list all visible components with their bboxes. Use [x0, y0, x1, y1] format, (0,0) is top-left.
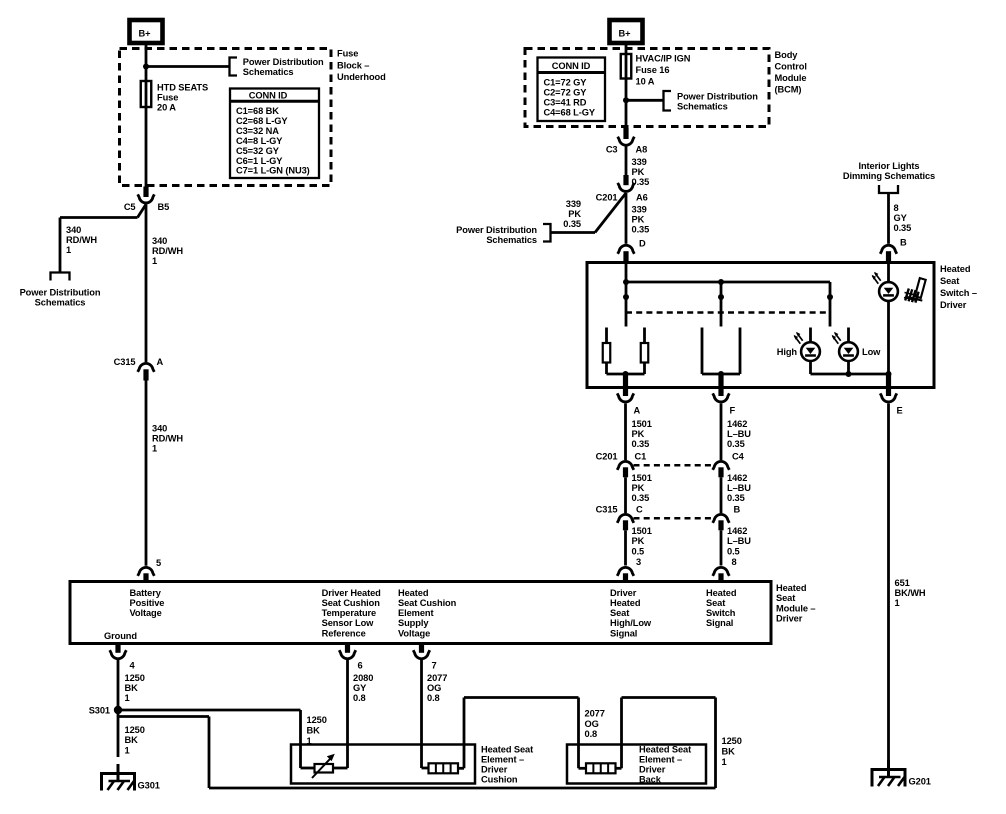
- svg-text:Underhood: Underhood: [337, 72, 386, 82]
- heating element (back): [586, 763, 616, 773]
- svg-text:B+: B+: [619, 29, 632, 39]
- wire E output stub: [886, 374, 891, 396]
- wire B+ to fuse block: [145, 43, 148, 49]
- module pin 8: [713, 567, 730, 576]
- svg-text:PK: PK: [568, 209, 581, 219]
- wire 651 BK/WH: [887, 404, 890, 770]
- svg-text:340: 340: [152, 423, 167, 433]
- svg-text:Fuse: Fuse: [337, 49, 358, 59]
- wire element return (back): [616, 767, 622, 770]
- connector C201 pin C1: [617, 461, 634, 470]
- heated seat switch - driver (box): [587, 263, 934, 388]
- module pin 6: [345, 644, 350, 653]
- svg-text:0.35: 0.35: [727, 493, 745, 503]
- svg-text:BK: BK: [125, 735, 139, 745]
- svg-text:339: 339: [632, 157, 647, 167]
- svg-text:A: A: [634, 405, 641, 415]
- CONN ID table (BCM): [538, 58, 606, 122]
- junction node: [718, 294, 724, 300]
- junction node: [623, 371, 629, 377]
- svg-text:C6=1 L-GY: C6=1 L-GY: [236, 156, 283, 166]
- svg-text:G301: G301: [138, 780, 160, 790]
- junction node: [718, 371, 724, 377]
- svg-text:1250: 1250: [722, 736, 742, 746]
- svg-text:C2=72 GY: C2=72 GY: [544, 88, 588, 98]
- svg-text:C3: C3: [606, 144, 618, 154]
- svg-text:PK: PK: [632, 536, 645, 546]
- svg-text:Body: Body: [775, 50, 799, 60]
- resistor (high range): [603, 343, 611, 363]
- junction node: [143, 64, 149, 70]
- wire: [809, 361, 812, 374]
- svg-text:BK: BK: [125, 683, 139, 693]
- svg-text:5: 5: [156, 558, 161, 568]
- svg-text:0.8: 0.8: [585, 729, 598, 739]
- svg-text:PK: PK: [632, 483, 645, 493]
- svg-text:Voltage: Voltage: [398, 628, 430, 638]
- svg-text:B+: B+: [139, 29, 152, 39]
- svg-text:Fuse 16: Fuse 16: [636, 65, 670, 75]
- wire indicator return: [811, 373, 889, 376]
- svg-text:Schematics: Schematics: [35, 297, 86, 307]
- resistor (low range): [641, 343, 649, 363]
- wire pin 7 to element: [422, 767, 429, 770]
- temperature sensor (variable resistor): [312, 754, 335, 778]
- heated seat element - driver back (box): [567, 745, 706, 784]
- wire B+ into BCM: [625, 43, 628, 49]
- wire internal bus: [626, 281, 830, 284]
- switch connector pin B: [880, 245, 897, 254]
- switch connector pin A: [617, 393, 634, 402]
- svg-text:Seat: Seat: [706, 598, 725, 608]
- svg-text:HVAC/IP IGN: HVAC/IP IGN: [636, 54, 691, 64]
- wire 2080 GY: [346, 660, 349, 768]
- connector C315 pin B: [713, 514, 730, 523]
- wire feed into back element: [577, 698, 580, 769]
- svg-text:0.35: 0.35: [727, 439, 745, 449]
- svg-text:1462: 1462: [727, 526, 747, 536]
- fuse block - underhood (dashed box): [120, 49, 332, 186]
- wire join F: [702, 373, 740, 376]
- svg-text:Interior Lights: Interior Lights: [859, 161, 920, 171]
- svg-text:C4=68 L-GY: C4=68 L-GY: [544, 108, 596, 118]
- svg-text:1: 1: [125, 693, 130, 703]
- wire 1250 BK from pin 4: [117, 660, 120, 710]
- svg-text:1: 1: [722, 757, 727, 767]
- fuse F1 HTD SEATS 20A: [141, 81, 152, 107]
- svg-text:Power Distribution: Power Distribution: [456, 225, 537, 235]
- svg-text:Element –: Element –: [481, 754, 524, 764]
- CONN ID table (fuse block): [230, 89, 319, 179]
- wire F output stub: [718, 374, 723, 396]
- svg-text:Element: Element: [398, 608, 433, 618]
- indicator LED Low: [832, 332, 858, 361]
- svg-text:Control: Control: [775, 62, 807, 72]
- svg-text:C: C: [636, 505, 643, 515]
- svg-text:B: B: [900, 237, 907, 247]
- battery feed B+ (BCM): [610, 20, 643, 43]
- svg-text:B: B: [734, 505, 741, 515]
- svg-text:0.35: 0.35: [894, 223, 912, 233]
- svg-text:1: 1: [125, 745, 130, 755]
- wire join A: [607, 373, 645, 376]
- svg-text:C5=32 GY: C5=32 GY: [236, 146, 280, 156]
- switch gang link (dashed): [626, 311, 829, 314]
- switch contact left F: [701, 328, 704, 375]
- off-page reference Power Distribution Schematics (BCM): [664, 91, 672, 111]
- svg-text:Driver: Driver: [776, 614, 803, 624]
- svg-text:1250: 1250: [307, 715, 327, 725]
- connector C201 pin C4: [713, 461, 730, 470]
- wire splice to element (branch 1): [118, 709, 301, 712]
- off-page reference Power Distribution Schematics (fuse block): [230, 58, 238, 76]
- junction node: [827, 294, 833, 300]
- seat heater icon: [904, 278, 926, 303]
- wire to High indicator: [809, 328, 812, 343]
- svg-text:Module: Module: [775, 73, 807, 83]
- wire element return (cushion): [458, 767, 464, 770]
- svg-text:CONN ID: CONN ID: [552, 61, 591, 71]
- svg-text:0.5: 0.5: [727, 546, 740, 556]
- connector C201 body (dashed): [634, 464, 714, 467]
- svg-text:Driver: Driver: [639, 764, 666, 774]
- junction node: [718, 279, 724, 285]
- wire A output stub: [623, 374, 628, 396]
- svg-text:0.8: 0.8: [353, 693, 366, 703]
- heating element (cushion): [429, 763, 459, 773]
- ground G301: [102, 764, 135, 791]
- wire branch diagonal to power distribution: [595, 193, 626, 233]
- svg-text:HTD SEATS: HTD SEATS: [157, 82, 208, 92]
- svg-text:1: 1: [66, 245, 71, 255]
- svg-text:Seat: Seat: [776, 593, 795, 603]
- svg-text:BK: BK: [722, 746, 736, 756]
- switch connector pin D: [618, 245, 635, 254]
- svg-text:0.35: 0.35: [632, 493, 650, 503]
- svg-text:C315: C315: [114, 357, 136, 367]
- illumination LED (switch): [872, 272, 898, 301]
- junction node: [623, 294, 629, 300]
- junction node: [846, 371, 852, 377]
- wire 1501 PK middle: [624, 477, 627, 513]
- svg-text:RD/WH: RD/WH: [152, 433, 183, 443]
- svg-text:BK: BK: [307, 725, 321, 735]
- svg-text:0.35: 0.35: [563, 219, 581, 229]
- fuse HVAC/IP IGN Fuse 16 10A: [621, 54, 632, 79]
- svg-text:Switch –: Switch –: [940, 288, 977, 298]
- svg-text:2077: 2077: [427, 673, 447, 683]
- heated seat element - driver cushion (box): [291, 745, 475, 784]
- svg-text:High: High: [777, 347, 798, 357]
- svg-text:Back: Back: [639, 774, 662, 784]
- indicator LED High: [794, 332, 820, 361]
- svg-text:PK: PK: [632, 167, 645, 177]
- svg-text:0.5: 0.5: [632, 546, 645, 556]
- svg-text:1: 1: [895, 598, 900, 608]
- connector C3 pin A8: [623, 128, 628, 139]
- svg-text:Switch: Switch: [706, 608, 736, 618]
- svg-text:PK: PK: [632, 429, 645, 439]
- wire: [847, 361, 850, 374]
- wire 1462 L-BU middle: [720, 477, 723, 513]
- svg-text:Seat Cushion: Seat Cushion: [398, 598, 457, 608]
- wire: [605, 363, 608, 375]
- wire 2077 OG: [420, 660, 423, 768]
- switch connector pin E: [880, 393, 897, 402]
- svg-text:0.8: 0.8: [427, 693, 440, 703]
- svg-text:S301: S301: [89, 706, 110, 716]
- module pin 3: [617, 567, 634, 576]
- wire illumination return: [887, 301, 890, 374]
- svg-text:Dimming Schematics: Dimming Schematics: [843, 171, 935, 181]
- wire to power distribution reference (BCM): [626, 99, 664, 102]
- wire illumination feed internal: [887, 263, 890, 283]
- svg-text:Positive: Positive: [130, 598, 165, 608]
- svg-text:2080: 2080: [353, 673, 373, 683]
- svg-text:A8: A8: [636, 144, 648, 154]
- svg-text:Module –: Module –: [776, 603, 816, 613]
- svg-text:L–BU: L–BU: [727, 536, 751, 546]
- svg-text:OG: OG: [427, 683, 441, 693]
- svg-text:Power Distribution: Power Distribution: [243, 57, 324, 67]
- module pin 7: [419, 644, 424, 653]
- svg-text:G201: G201: [909, 776, 931, 786]
- svg-text:Fuse: Fuse: [157, 92, 178, 102]
- svg-text:Battery: Battery: [130, 588, 162, 598]
- module pin 4: [115, 644, 120, 653]
- svg-text:Supply: Supply: [398, 618, 429, 628]
- svg-text:1250: 1250: [125, 725, 145, 735]
- svg-text:0.35: 0.35: [632, 225, 650, 235]
- svg-text:C1=68 BK: C1=68 BK: [236, 106, 279, 116]
- svg-text:L–BU: L–BU: [727, 429, 751, 439]
- battery feed B+ (left): [130, 20, 163, 43]
- svg-text:1501: 1501: [632, 526, 652, 536]
- wire 1501 PK lower: [624, 530, 627, 565]
- svg-text:Seat: Seat: [940, 276, 959, 286]
- svg-text:1: 1: [152, 444, 157, 454]
- off-page reference Power Distribution Schematics (left): [51, 273, 70, 281]
- off-page reference Interior Lights (bracket): [879, 185, 898, 193]
- wire 340 RD/WH to module: [145, 381, 148, 566]
- svg-text:OG: OG: [585, 719, 599, 729]
- svg-text:Heated: Heated: [398, 588, 429, 598]
- svg-text:A: A: [157, 357, 164, 367]
- connector C5 pin B5: [143, 187, 148, 198]
- svg-text:F: F: [730, 405, 736, 415]
- svg-text:Power Distribution: Power Distribution: [677, 92, 758, 102]
- wire to temperature sensor: [301, 767, 315, 770]
- wire 1462 L-BU lower: [720, 530, 723, 565]
- off-page reference Power Distribution Schematics (middle): [543, 224, 551, 242]
- svg-text:Seat: Seat: [610, 608, 629, 618]
- svg-text:D: D: [639, 239, 646, 249]
- svg-text:C201: C201: [596, 452, 618, 462]
- svg-text:651: 651: [895, 578, 910, 588]
- svg-text:Heated Seat: Heated Seat: [481, 744, 533, 754]
- svg-text:Block –: Block –: [337, 60, 369, 70]
- svg-text:3: 3: [636, 557, 641, 567]
- wire through BCM: [625, 49, 628, 128]
- svg-text:2077: 2077: [585, 708, 605, 718]
- junction node: [623, 97, 629, 103]
- svg-text:C3=41 RD: C3=41 RD: [544, 98, 587, 108]
- wire switch pole middle: [720, 282, 723, 327]
- svg-text:0.35: 0.35: [632, 439, 650, 449]
- connector C315 pin A (left): [138, 363, 155, 372]
- svg-text:Ground: Ground: [104, 631, 137, 641]
- junction node: [886, 371, 892, 377]
- wire to Low indicator: [847, 328, 850, 343]
- wire 339 PK to switch: [625, 193, 628, 244]
- ground G201: [872, 760, 905, 787]
- svg-text:8: 8: [732, 557, 737, 567]
- connector C315 pin C: [617, 514, 634, 523]
- svg-text:6: 6: [358, 660, 363, 670]
- svg-text:PK: PK: [632, 215, 645, 225]
- svg-text:C2=68 L-GY: C2=68 L-GY: [236, 116, 288, 126]
- svg-text:Heated: Heated: [940, 264, 971, 274]
- svg-text:C315: C315: [596, 505, 618, 515]
- wire 1501 PK upper: [624, 404, 627, 461]
- svg-text:1501: 1501: [632, 473, 652, 483]
- svg-text:L–BU: L–BU: [727, 483, 751, 493]
- svg-text:Heated: Heated: [776, 583, 807, 593]
- svg-text:Heated: Heated: [706, 588, 737, 598]
- svg-text:RD/WH: RD/WH: [152, 246, 183, 256]
- wire splice return (branch 2): [118, 715, 209, 718]
- svg-text:C1=72 GY: C1=72 GY: [544, 78, 588, 88]
- wire switch feed D internal: [625, 263, 628, 327]
- svg-text:340: 340: [66, 225, 81, 235]
- svg-text:Signal: Signal: [706, 618, 733, 628]
- svg-text:C3=32 NA: C3=32 NA: [236, 126, 279, 136]
- wire 340 RD/WH main run: [145, 204, 148, 362]
- wire to power distribution reference: [146, 65, 230, 68]
- svg-text:C4: C4: [732, 452, 745, 462]
- svg-text:Heated: Heated: [610, 598, 641, 608]
- svg-text:C5: C5: [124, 202, 136, 212]
- svg-text:Temperature: Temperature: [322, 608, 377, 618]
- svg-text:339: 339: [632, 205, 647, 215]
- module pin 5: [138, 567, 155, 576]
- svg-text:B5: B5: [158, 202, 170, 212]
- svg-text:Signal: Signal: [610, 628, 637, 638]
- svg-text:BK/WH: BK/WH: [895, 588, 926, 598]
- svg-text:340: 340: [152, 236, 167, 246]
- svg-text:A6: A6: [636, 192, 648, 202]
- body control module BCM (dashed box): [525, 49, 769, 127]
- svg-text:Schematics: Schematics: [243, 67, 294, 77]
- svg-text:RD/WH: RD/WH: [66, 235, 97, 245]
- wire: [643, 363, 646, 375]
- svg-text:Sensor Low: Sensor Low: [322, 618, 375, 628]
- wire 1250 BK to ground: [117, 710, 120, 757]
- svg-text:Driver: Driver: [940, 300, 967, 310]
- svg-text:E: E: [897, 405, 903, 415]
- svg-text:1250: 1250: [125, 673, 145, 683]
- svg-text:1462: 1462: [727, 419, 747, 429]
- svg-text:1: 1: [152, 256, 157, 266]
- wire inside fuse block: [145, 49, 148, 187]
- svg-text:7: 7: [432, 660, 437, 670]
- svg-text:Driver: Driver: [481, 764, 508, 774]
- svg-text:Schematics: Schematics: [486, 235, 537, 245]
- svg-text:Voltage: Voltage: [130, 608, 162, 618]
- svg-text:GY: GY: [353, 683, 367, 693]
- svg-text:C4=8 L-GY: C4=8 L-GY: [236, 136, 283, 146]
- switch contact right F: [739, 328, 742, 375]
- switch contact right A: [643, 328, 646, 344]
- heated seat module - driver (box): [70, 582, 771, 644]
- svg-text:10 A: 10 A: [636, 76, 655, 86]
- splice S301: [114, 706, 122, 714]
- svg-text:High/Low: High/Low: [610, 618, 652, 628]
- svg-text:C201: C201: [596, 192, 618, 202]
- svg-text:Schematics: Schematics: [677, 102, 728, 112]
- svg-text:CONN ID: CONN ID: [249, 90, 288, 100]
- svg-text:Heated Seat: Heated Seat: [639, 744, 691, 754]
- wire 1462 L-BU upper: [720, 404, 723, 461]
- svg-text:8: 8: [894, 203, 899, 213]
- svg-text:(BCM): (BCM): [775, 85, 802, 95]
- svg-text:Low: Low: [862, 347, 881, 357]
- svg-text:Driver: Driver: [610, 588, 637, 598]
- svg-text:1462: 1462: [727, 473, 747, 483]
- wire branch to power distribution (diagonal): [138, 204, 147, 217]
- svg-text:20 A: 20 A: [157, 103, 176, 113]
- wire switch pole right: [829, 282, 832, 327]
- wire 8 GY: [887, 193, 890, 244]
- connector C315 body (dashed): [634, 517, 714, 520]
- svg-text:Seat Cushion: Seat Cushion: [322, 598, 381, 608]
- svg-text:Cushion: Cushion: [481, 774, 518, 784]
- svg-text:Power Distribution: Power Distribution: [20, 287, 101, 297]
- svg-text:Element –: Element –: [639, 754, 682, 764]
- switch contact left A: [605, 328, 608, 344]
- svg-text:GY: GY: [894, 213, 908, 223]
- svg-text:C1: C1: [635, 452, 647, 462]
- svg-text:339: 339: [566, 199, 581, 209]
- switch connector pin F: [713, 393, 730, 402]
- connector C201 pin A6: [623, 175, 628, 185]
- svg-text:1501: 1501: [632, 419, 652, 429]
- junction node: [623, 279, 629, 285]
- svg-text:Driver Heated: Driver Heated: [322, 588, 382, 598]
- svg-text:C7=1 L-GN (NU3): C7=1 L-GN (NU3): [236, 166, 310, 176]
- svg-text:Reference: Reference: [322, 628, 366, 638]
- wire 339 PK: [625, 147, 628, 176]
- wire sensor to pin 6: [333, 767, 348, 770]
